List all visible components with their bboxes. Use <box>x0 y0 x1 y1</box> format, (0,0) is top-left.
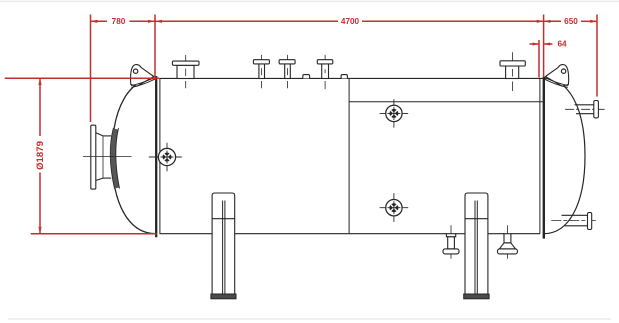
dia bottom arrow <box>38 227 41 234</box>
650 left arrow <box>544 20 551 23</box>
manway pad band left edge <box>110 128 114 189</box>
nozzle side-view symbol (lower shell) <box>380 193 409 222</box>
right nozzle upper (on head) <box>565 101 605 118</box>
nozzle N1 (large, top left) <box>172 55 199 88</box>
left head weld seam thin <box>159 78 161 233</box>
right head outer arc <box>544 78 586 233</box>
4700 right arrow <box>537 20 544 23</box>
vertical dimension line <box>39 78 41 136</box>
64 dimension line <box>530 43 540 45</box>
shell bottom line <box>160 233 213 235</box>
bottom extension horizontal <box>31 233 157 235</box>
left lug <box>131 65 156 88</box>
top extension horizontal <box>5 77 160 79</box>
780 right arrow <box>148 20 155 23</box>
bottom nozzle B (right of right leg) <box>498 225 518 258</box>
nozzle N4 (top) <box>317 55 333 89</box>
svg-text:780: 780 <box>112 17 126 26</box>
manway neck top <box>103 135 111 137</box>
nozzle N3 (top) <box>279 55 295 88</box>
extension line 64 left <box>538 40 540 78</box>
4700 left arrow <box>155 20 162 23</box>
lug pad arc <box>131 78 154 86</box>
internal horizontal line <box>349 101 542 103</box>
top dimension line <box>91 20 108 22</box>
lug pad arc <box>545 78 568 86</box>
faint top border <box>0 0 619 2</box>
svg-text:4700: 4700 <box>341 17 360 26</box>
extension line at manway flange <box>90 15 92 123</box>
svg-text:64: 64 <box>557 40 567 49</box>
extension line right weld <box>543 15 545 78</box>
extension line left tangent <box>154 15 156 81</box>
64 right arrow <box>544 43 550 46</box>
650 right arrow <box>590 20 597 23</box>
faint bottom border <box>8 318 611 320</box>
nozzle N5 (large, top right) <box>500 52 525 91</box>
manway flange <box>91 125 96 189</box>
dimension texts <box>35 17 578 170</box>
780 left arrow <box>91 20 98 23</box>
lug plate <box>545 65 568 87</box>
lug plate <box>131 65 154 87</box>
bottom nozzle A (left of right leg) <box>443 225 459 258</box>
64 left arrow <box>533 43 539 46</box>
lug hole <box>561 69 565 73</box>
lug hole <box>133 69 137 73</box>
left head weld seam thick <box>155 76 157 237</box>
coupling stub S2 <box>341 75 347 79</box>
manway pad band fill <box>113 129 117 188</box>
right lug <box>544 65 569 88</box>
left head outer arc <box>112 78 156 233</box>
shell top line <box>160 77 543 79</box>
support leg right <box>464 193 489 299</box>
svg-text:650: 650 <box>564 17 578 26</box>
manway (left) <box>83 125 132 189</box>
manway hub vertical <box>102 136 104 178</box>
coupling stub S1 <box>303 75 310 79</box>
circumferential seam <box>348 78 350 233</box>
right head weld seam thin <box>539 78 541 233</box>
nozzle side-view symbol (left, on head weld) <box>149 143 182 172</box>
support leg left <box>211 193 236 299</box>
manway centerline <box>83 156 132 158</box>
right head weld seam thick <box>543 77 545 239</box>
dia top arrow <box>38 78 41 85</box>
svg-text:Ø1879: Ø1879 <box>35 141 46 170</box>
manway hub taper top <box>96 133 103 136</box>
right nozzle lower (on head) <box>551 213 596 230</box>
extension line right nozzle <box>596 15 598 97</box>
nozzle side-view symbol (upper shell) <box>380 99 409 127</box>
nozzle N2 (top) <box>253 55 269 88</box>
manway neck bottom <box>103 177 111 179</box>
manway hub taper bottom <box>96 178 103 180</box>
manway pad band right edge <box>116 128 120 189</box>
dimension arrows <box>38 20 597 234</box>
